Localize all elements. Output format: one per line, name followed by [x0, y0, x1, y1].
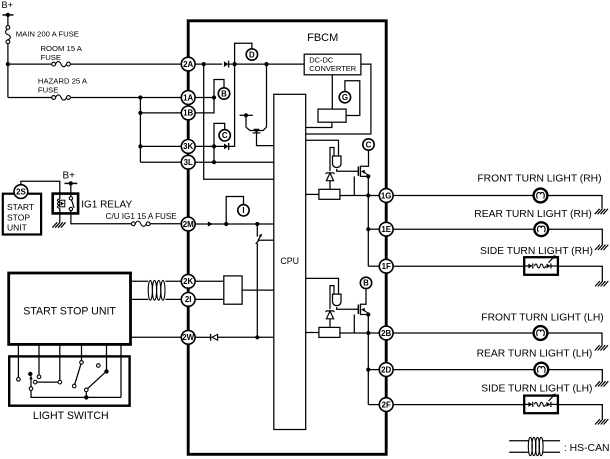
wire relay coil to ground	[59, 213, 61, 222]
svg-text:C: C	[222, 131, 228, 140]
svg-text:1E: 1E	[381, 225, 391, 234]
FBCM box	[188, 21, 386, 455]
wire 2D stub	[368, 369, 380, 371]
svg-text:CONVERTER: CONVERTER	[309, 64, 357, 73]
wire 2F to side marker LH	[393, 404, 525, 406]
arrow on 2M wire	[208, 221, 213, 226]
twisted pair (CAN) symbol	[148, 280, 165, 300]
switch arm with arrow	[29, 375, 33, 390]
svg-text:B: B	[363, 279, 369, 288]
HS-CAN twisted pair legend	[509, 437, 609, 455]
junction dot on hazard line	[138, 95, 142, 99]
wire lamp to ground	[547, 196, 602, 209]
resistor box RH	[306, 189, 340, 199]
svg-text:FUSE: FUSE	[41, 53, 62, 62]
wire resistor to 1G row	[340, 195, 380, 197]
svg-text:REAR TURN LIGHT (LH): REAR TURN LIGHT (LH)	[477, 349, 593, 360]
diode on 3K row	[224, 143, 229, 150]
svg-text:3K: 3K	[183, 142, 193, 151]
LED side turn light (LH)	[524, 393, 558, 413]
node 2A	[181, 57, 195, 71]
wire to 3L	[140, 161, 181, 163]
wire lamp to ground	[548, 370, 602, 382]
wire D junction down to 3K diode output	[229, 64, 235, 146]
junction dot 2M branch	[255, 222, 259, 226]
wire 2I row interior	[195, 298, 224, 300]
wire switch drop 5	[106, 344, 108, 371]
wire switch drop 3	[59, 344, 61, 380]
wire junction down to hazard row	[7, 64, 9, 97]
contact (open, mid)	[33, 380, 37, 384]
junction dot 3K branch	[138, 144, 142, 148]
svg-text:REAR TURN LIGHT (RH): REAR TURN LIGHT (RH)	[474, 209, 591, 220]
svg-text:2K: 2K	[183, 277, 193, 286]
junction dot BJT feed	[264, 62, 268, 66]
wire 2B to front lamp LH	[393, 332, 534, 334]
node B+ (relay feed)	[63, 170, 78, 185]
light switch box	[9, 356, 129, 422]
contact dot (switch target)	[28, 372, 32, 376]
svg-text:SIDE TURN LIGHT (LH): SIDE TURN LIGHT (LH)	[481, 384, 592, 395]
node B hook (left)	[214, 80, 230, 100]
wire LED to ground	[558, 405, 602, 420]
wire 1A row interior	[195, 97, 214, 99]
wire 2K twisted pair feed	[131, 280, 149, 282]
interface box (CAN)	[224, 276, 242, 304]
svg-text:1F: 1F	[382, 262, 391, 271]
switch arm (right blade)	[88, 373, 105, 389]
lamp REAR TURN LIGHT (LH)	[534, 363, 548, 377]
svg-text:C/U IG1 15 A FUSE: C/U IG1 15 A FUSE	[106, 212, 178, 221]
zener diode LH	[326, 311, 335, 328]
ground (relay)	[52, 222, 65, 227]
fuse ROOM 15 A	[41, 44, 83, 67]
wire 2A branch down and into CPU	[204, 64, 274, 179]
wire lamp to ground	[548, 229, 602, 244]
wire to 3K	[140, 145, 181, 147]
junction dot D/3K branch	[233, 62, 237, 66]
wire 2D to rear lamp LH	[393, 369, 535, 371]
svg-text:START: START	[7, 202, 34, 212]
svg-text:B: B	[221, 89, 227, 98]
wire relay contact to fuse to 2M	[71, 211, 134, 224]
fuse C/U IG1 15 A	[106, 212, 178, 226]
ground (front LH)	[595, 345, 608, 350]
start stop unit (main box)	[9, 273, 131, 344]
wire contact link	[37, 381, 58, 383]
junction dot 2W/2M branch	[255, 335, 259, 339]
node 2I	[181, 293, 195, 307]
node 3K	[181, 140, 195, 154]
fuse MAIN 200 A (vertical)	[6, 26, 79, 44]
wire 1G to front lamp RH	[393, 195, 534, 197]
contact (open)	[37, 375, 41, 379]
node C (above Q2)	[363, 139, 374, 150]
wire 1F to side marker RH	[393, 265, 525, 267]
wire 3L row to CPU	[195, 161, 274, 163]
wire DC-DC output loop to CPU	[306, 64, 371, 134]
junction dot 1A/B	[212, 95, 216, 99]
MOSFET Q3 (LH output)	[358, 288, 370, 316]
node G hook	[339, 81, 360, 116]
ground (rear LH)	[595, 381, 608, 386]
junction dot 3L	[212, 160, 216, 164]
wire 1F stub	[368, 265, 380, 267]
wire switch drop 4	[81, 344, 83, 360]
wire DC-DC bottom to interface box	[331, 75, 333, 109]
diode on 2A rail	[224, 61, 229, 68]
ground (side LH)	[595, 419, 608, 424]
node segment with dot (BJT base tap)	[240, 113, 253, 117]
ground (front RH)	[595, 209, 608, 214]
contact (open)	[80, 361, 84, 365]
junction dot 3K/C	[212, 144, 216, 148]
CPU block U1	[274, 94, 306, 429]
svg-text:3L: 3L	[184, 158, 193, 167]
svg-text:STOP: STOP	[7, 212, 30, 222]
svg-text:B+: B+	[2, 0, 14, 10]
resistor box LH	[306, 327, 340, 337]
wire output chain RH	[367, 176, 369, 266]
driver cell RH: buffer gate	[306, 140, 359, 171]
svg-text:CPU: CPU	[280, 256, 299, 266]
start stop unit (small box)	[3, 194, 41, 235]
lamp FRONT TURN LIGHT (RH)	[534, 189, 548, 203]
diode on 2W row (pointing left)	[211, 334, 218, 341]
node 1A	[181, 91, 195, 105]
junction dot 2A branch to CPU	[202, 62, 206, 66]
node 3L	[181, 155, 195, 169]
contact pivot (open)	[72, 384, 76, 388]
svg-text:ROOM 15 A: ROOM 15 A	[41, 44, 83, 53]
wire C-hook vertical to 3L	[213, 146, 215, 162]
node 1G	[379, 189, 393, 203]
lamp FRONT TURN LIGHT (LH)	[534, 326, 548, 340]
svg-text:FBCM: FBCM	[307, 32, 338, 44]
relay K1 IG1 RELAY	[53, 194, 133, 214]
MOSFET Q2 (RH output)	[358, 150, 370, 178]
svg-text:HAZARD 25 A: HAZARD 25 A	[38, 77, 88, 86]
wire B+ to relay contact	[70, 183, 72, 196]
interface box (under G)	[318, 109, 346, 122]
wire 2W row interior	[195, 336, 211, 338]
svg-text:2F: 2F	[382, 400, 391, 409]
svg-text:1A: 1A	[183, 93, 193, 102]
driver cell LH: buffer gate	[306, 278, 359, 309]
ground (rear RH)	[595, 245, 608, 250]
node 2D	[379, 363, 393, 377]
wire to 1B	[140, 112, 181, 114]
contact (closed dot)	[104, 369, 108, 373]
svg-text:C: C	[366, 140, 372, 149]
wire HAZARD row to 1A	[8, 97, 54, 99]
wire switch drop 1	[17, 344, 19, 377]
junction dot I hook	[224, 222, 228, 226]
svg-text:UNIT: UNIT	[7, 222, 27, 232]
node 2W	[181, 330, 195, 344]
node I hook	[226, 197, 249, 225]
node C hook (left)	[214, 123, 230, 146]
svg-text:2A: 2A	[183, 60, 193, 69]
wire 1B riser	[195, 98, 214, 113]
switch arm (left blade)	[75, 364, 81, 384]
transistor Q1	[246, 115, 274, 145]
svg-text:2I: 2I	[185, 295, 192, 304]
svg-text:2S: 2S	[16, 187, 26, 196]
svg-text:2W: 2W	[182, 333, 194, 342]
contact (open)	[17, 378, 21, 382]
svg-text:2M: 2M	[183, 220, 194, 229]
svg-text:I: I	[242, 206, 244, 215]
svg-text:SIDE TURN LIGHT (RH): SIDE TURN LIGHT (RH)	[480, 246, 593, 257]
svg-text:: HS-CAN: : HS-CAN	[564, 443, 610, 454]
wire LED to ground	[558, 266, 602, 281]
riser resistor to source	[353, 315, 355, 334]
svg-text:2B: 2B	[381, 329, 391, 338]
wire interface box to CPU	[306, 122, 332, 127]
wire MAIN fuse to junction	[7, 44, 9, 64]
ground (side RH)	[595, 281, 608, 286]
svg-text:1B: 1B	[183, 109, 193, 118]
zener diode RH	[326, 173, 335, 190]
wire dot to pivot	[85, 392, 87, 398]
node 2M	[181, 217, 195, 231]
junction dot 1B branch	[138, 111, 142, 115]
svg-text:FRONT TURN LIGHT (LH): FRONT TURN LIGHT (LH)	[481, 313, 603, 324]
node D hook	[235, 43, 258, 64]
wire switch bottom bus	[31, 390, 121, 397]
wire start stop unit to 2W	[131, 336, 182, 338]
node 2B	[379, 326, 393, 340]
svg-text:FUSE: FUSE	[38, 86, 59, 95]
node 2S connector	[14, 185, 28, 199]
wire 2A rail	[195, 63, 223, 65]
node 1B	[181, 106, 195, 120]
riser resistor to source	[353, 176, 355, 195]
junction dot (B+ branch)	[6, 62, 10, 66]
svg-text:1G: 1G	[381, 191, 392, 200]
contact (open, floating)	[97, 364, 101, 368]
svg-text:B+: B+	[63, 170, 76, 181]
svg-text:2D: 2D	[381, 365, 391, 374]
wire BJT collector feed	[266, 64, 268, 127]
wire switch drop 6 to bus	[120, 344, 122, 397]
wire lamp to ground	[547, 333, 602, 345]
wire switch drop 2	[38, 344, 40, 375]
wire CAN box to CPU	[242, 289, 274, 291]
junction dot on bus	[84, 395, 88, 399]
wire 2I twisted pair feed	[131, 298, 149, 300]
wire 2F stub	[368, 404, 380, 406]
svg-text:FRONT TURN LIGHT (RH): FRONT TURN LIGHT (RH)	[477, 174, 601, 185]
wire 3K row interior	[195, 145, 225, 147]
svg-text:START STOP UNIT: START STOP UNIT	[23, 305, 116, 317]
wire branch down to 1B 3K 3L	[139, 98, 141, 163]
wire 2M row interior	[195, 223, 274, 225]
svg-text:G: G	[342, 93, 348, 102]
wire 2S to relay coil	[21, 181, 60, 193]
contact (open)	[58, 380, 62, 384]
DC-DC converter box	[304, 54, 361, 75]
wire B+ to MAIN fuse	[7, 15, 9, 26]
svg-text:IG1 RELAY: IG1 RELAY	[81, 199, 132, 210]
node B (above Q3)	[360, 277, 371, 288]
wire ROOM fuse row to 2A	[8, 63, 54, 65]
fuse HAZARD 25 A	[38, 77, 88, 100]
node 1E	[379, 222, 393, 236]
svg-text:LIGHT SWITCH: LIGHT SWITCH	[33, 410, 109, 422]
node 1F	[379, 259, 393, 273]
svg-text:D: D	[249, 50, 255, 59]
wire 1E to rear lamp RH	[393, 228, 535, 230]
node B+ (battery, top-left)	[2, 0, 14, 17]
contact pivot (open)	[85, 388, 89, 392]
lamp REAR TURN LIGHT (RH)	[534, 222, 548, 236]
wire output chain LH	[367, 315, 369, 405]
LED side turn light (RH)	[524, 255, 558, 275]
node 2K	[181, 274, 195, 288]
wire resistor to 2B row	[340, 332, 380, 334]
switch-arrow tap to CPU	[256, 224, 274, 337]
wire 2K row interior	[195, 280, 224, 282]
node 2F	[379, 398, 393, 412]
wire 1E stub	[368, 228, 380, 230]
svg-text:MAIN 200 A FUSE: MAIN 200 A FUSE	[16, 30, 79, 39]
